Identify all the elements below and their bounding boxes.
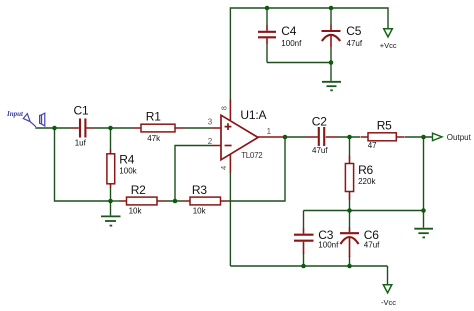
node C3 bottom junction (301, 264, 306, 269)
port Input speaker icon (40, 113, 45, 126)
node C4 top junction (265, 6, 270, 11)
wire ground B stem (110, 201, 112, 215)
ground C (414, 229, 433, 238)
port Input flag (23, 114, 36, 127)
port Output arrow (433, 133, 443, 140)
op-amp U1 triangle (221, 115, 258, 160)
op-amp U1 pins (212, 100, 284, 173)
wire left vertical to lower rail (55, 128, 111, 201)
wire C2 to R6 node to R5 (338, 136, 360, 138)
svg-text:R6: R6 (358, 163, 373, 177)
wire R1 to pin3 (183, 127, 212, 129)
svg-text:1uf: 1uf (75, 139, 87, 148)
node ground A junction (329, 60, 334, 65)
svg-text:47uf: 47uf (364, 241, 380, 250)
node C6 bottom junction (347, 264, 352, 269)
node R6/C6 mid junction (347, 208, 352, 213)
resistor R4 (107, 150, 115, 189)
wire C5 bottom lead (330, 47, 332, 63)
op-amp minus input mark (225, 145, 232, 147)
wire R6 bottom lead (349, 200, 351, 211)
resistor R2 (119, 197, 165, 205)
wire C3 top lead (303, 211, 305, 229)
svg-text:47: 47 (368, 141, 377, 150)
resistor R3 (183, 197, 229, 205)
ground B (101, 216, 121, 225)
svg-text:2: 2 (208, 137, 213, 146)
svg-text:C5: C5 (346, 24, 361, 38)
svg-text:C2: C2 (312, 114, 327, 128)
node mid-rail ground junction (421, 208, 426, 213)
wire C4 bottom lead (266, 44, 268, 63)
wire mid rail (304, 210, 424, 212)
svg-text:1: 1 (267, 127, 272, 136)
resistor R1 (133, 124, 183, 132)
node C2/R6 junction (347, 135, 352, 140)
wire -Vcc stem (387, 266, 389, 285)
node output junction (283, 135, 288, 140)
svg-text:TL072: TL072 (241, 151, 263, 160)
wire C5 top lead (330, 8, 332, 25)
svg-text:Output: Output (447, 133, 472, 142)
wire output node to C2 (285, 136, 306, 138)
wire C1 to R1 (94, 127, 133, 129)
wire input to C1 (36, 126, 71, 129)
svg-text:U1:A: U1:A (240, 108, 266, 122)
svg-text:Input: Input (6, 110, 24, 118)
svg-text:C4: C4 (281, 24, 296, 38)
wire bottom rail (230, 265, 387, 267)
svg-text:47uf: 47uf (347, 39, 363, 48)
svg-text:8: 8 (220, 106, 229, 110)
ground A (322, 82, 341, 91)
node R2/R3/pin2 junction (173, 199, 178, 204)
supply +Vcc symbol (384, 29, 393, 37)
wire C6 bottom lead (349, 256, 351, 266)
svg-text:47k: 47k (147, 134, 161, 143)
capacitor C5 (322, 25, 341, 48)
svg-text:220k: 220k (358, 177, 376, 186)
wire C4 top lead (266, 8, 268, 25)
node input junction (52, 126, 57, 131)
wire R3 to output node (228, 137, 285, 201)
wire C3 bottom lead (303, 253, 305, 266)
op-amp plus input mark (225, 123, 232, 130)
resistor R6 (345, 156, 353, 201)
svg-text:+Vcc: +Vcc (380, 41, 397, 50)
node R4/R2/ground junction (108, 199, 113, 204)
svg-text:100nf: 100nf (281, 39, 302, 48)
wire pin2 feedback vertical (175, 146, 212, 202)
svg-text:100k: 100k (119, 167, 137, 176)
svg-text:R2: R2 (131, 183, 146, 197)
svg-text:R5: R5 (377, 119, 392, 133)
capacitor C2 (306, 127, 338, 146)
node R5/output junction (421, 135, 426, 140)
capacitor C6 (340, 227, 359, 257)
wire opamp pin4 down (229, 173, 231, 267)
svg-text:R1: R1 (146, 109, 161, 123)
wire R6 top lead (349, 137, 351, 156)
svg-text:R4: R4 (119, 152, 134, 166)
wire C6 top lead (349, 211, 351, 228)
supply -Vcc symbol (383, 285, 392, 293)
node C5 top junction (329, 6, 334, 11)
capacitor C1 (71, 119, 94, 138)
wire R4 top lead (110, 128, 112, 150)
node C1/R1/R4 junction (108, 126, 113, 131)
capacitor C4 (258, 25, 276, 44)
resistor R5 (361, 133, 405, 141)
svg-text:10k: 10k (193, 207, 207, 216)
svg-text:-Vcc: -Vcc (381, 298, 396, 307)
wire C4-C5 bottom (267, 62, 331, 64)
capacitor C3 (294, 228, 314, 254)
svg-text:C1: C1 (74, 103, 89, 117)
wire R4 bottom lead (110, 188, 112, 201)
svg-text:47uf: 47uf (312, 146, 328, 155)
svg-text:4: 4 (219, 166, 228, 170)
svg-text:100nf: 100nf (318, 241, 339, 250)
wire R5 to output port (405, 136, 433, 138)
wire R2 left (111, 200, 120, 202)
svg-text:R3: R3 (192, 183, 207, 197)
svg-text:3: 3 (208, 117, 213, 126)
wire V+ rail from opamp pin8 to +Vcc (230, 8, 388, 100)
svg-text:10k: 10k (129, 207, 143, 216)
wire R2-R3 (165, 200, 183, 202)
wire ground A stem (330, 63, 332, 81)
wire ground C vertical (423, 137, 425, 228)
